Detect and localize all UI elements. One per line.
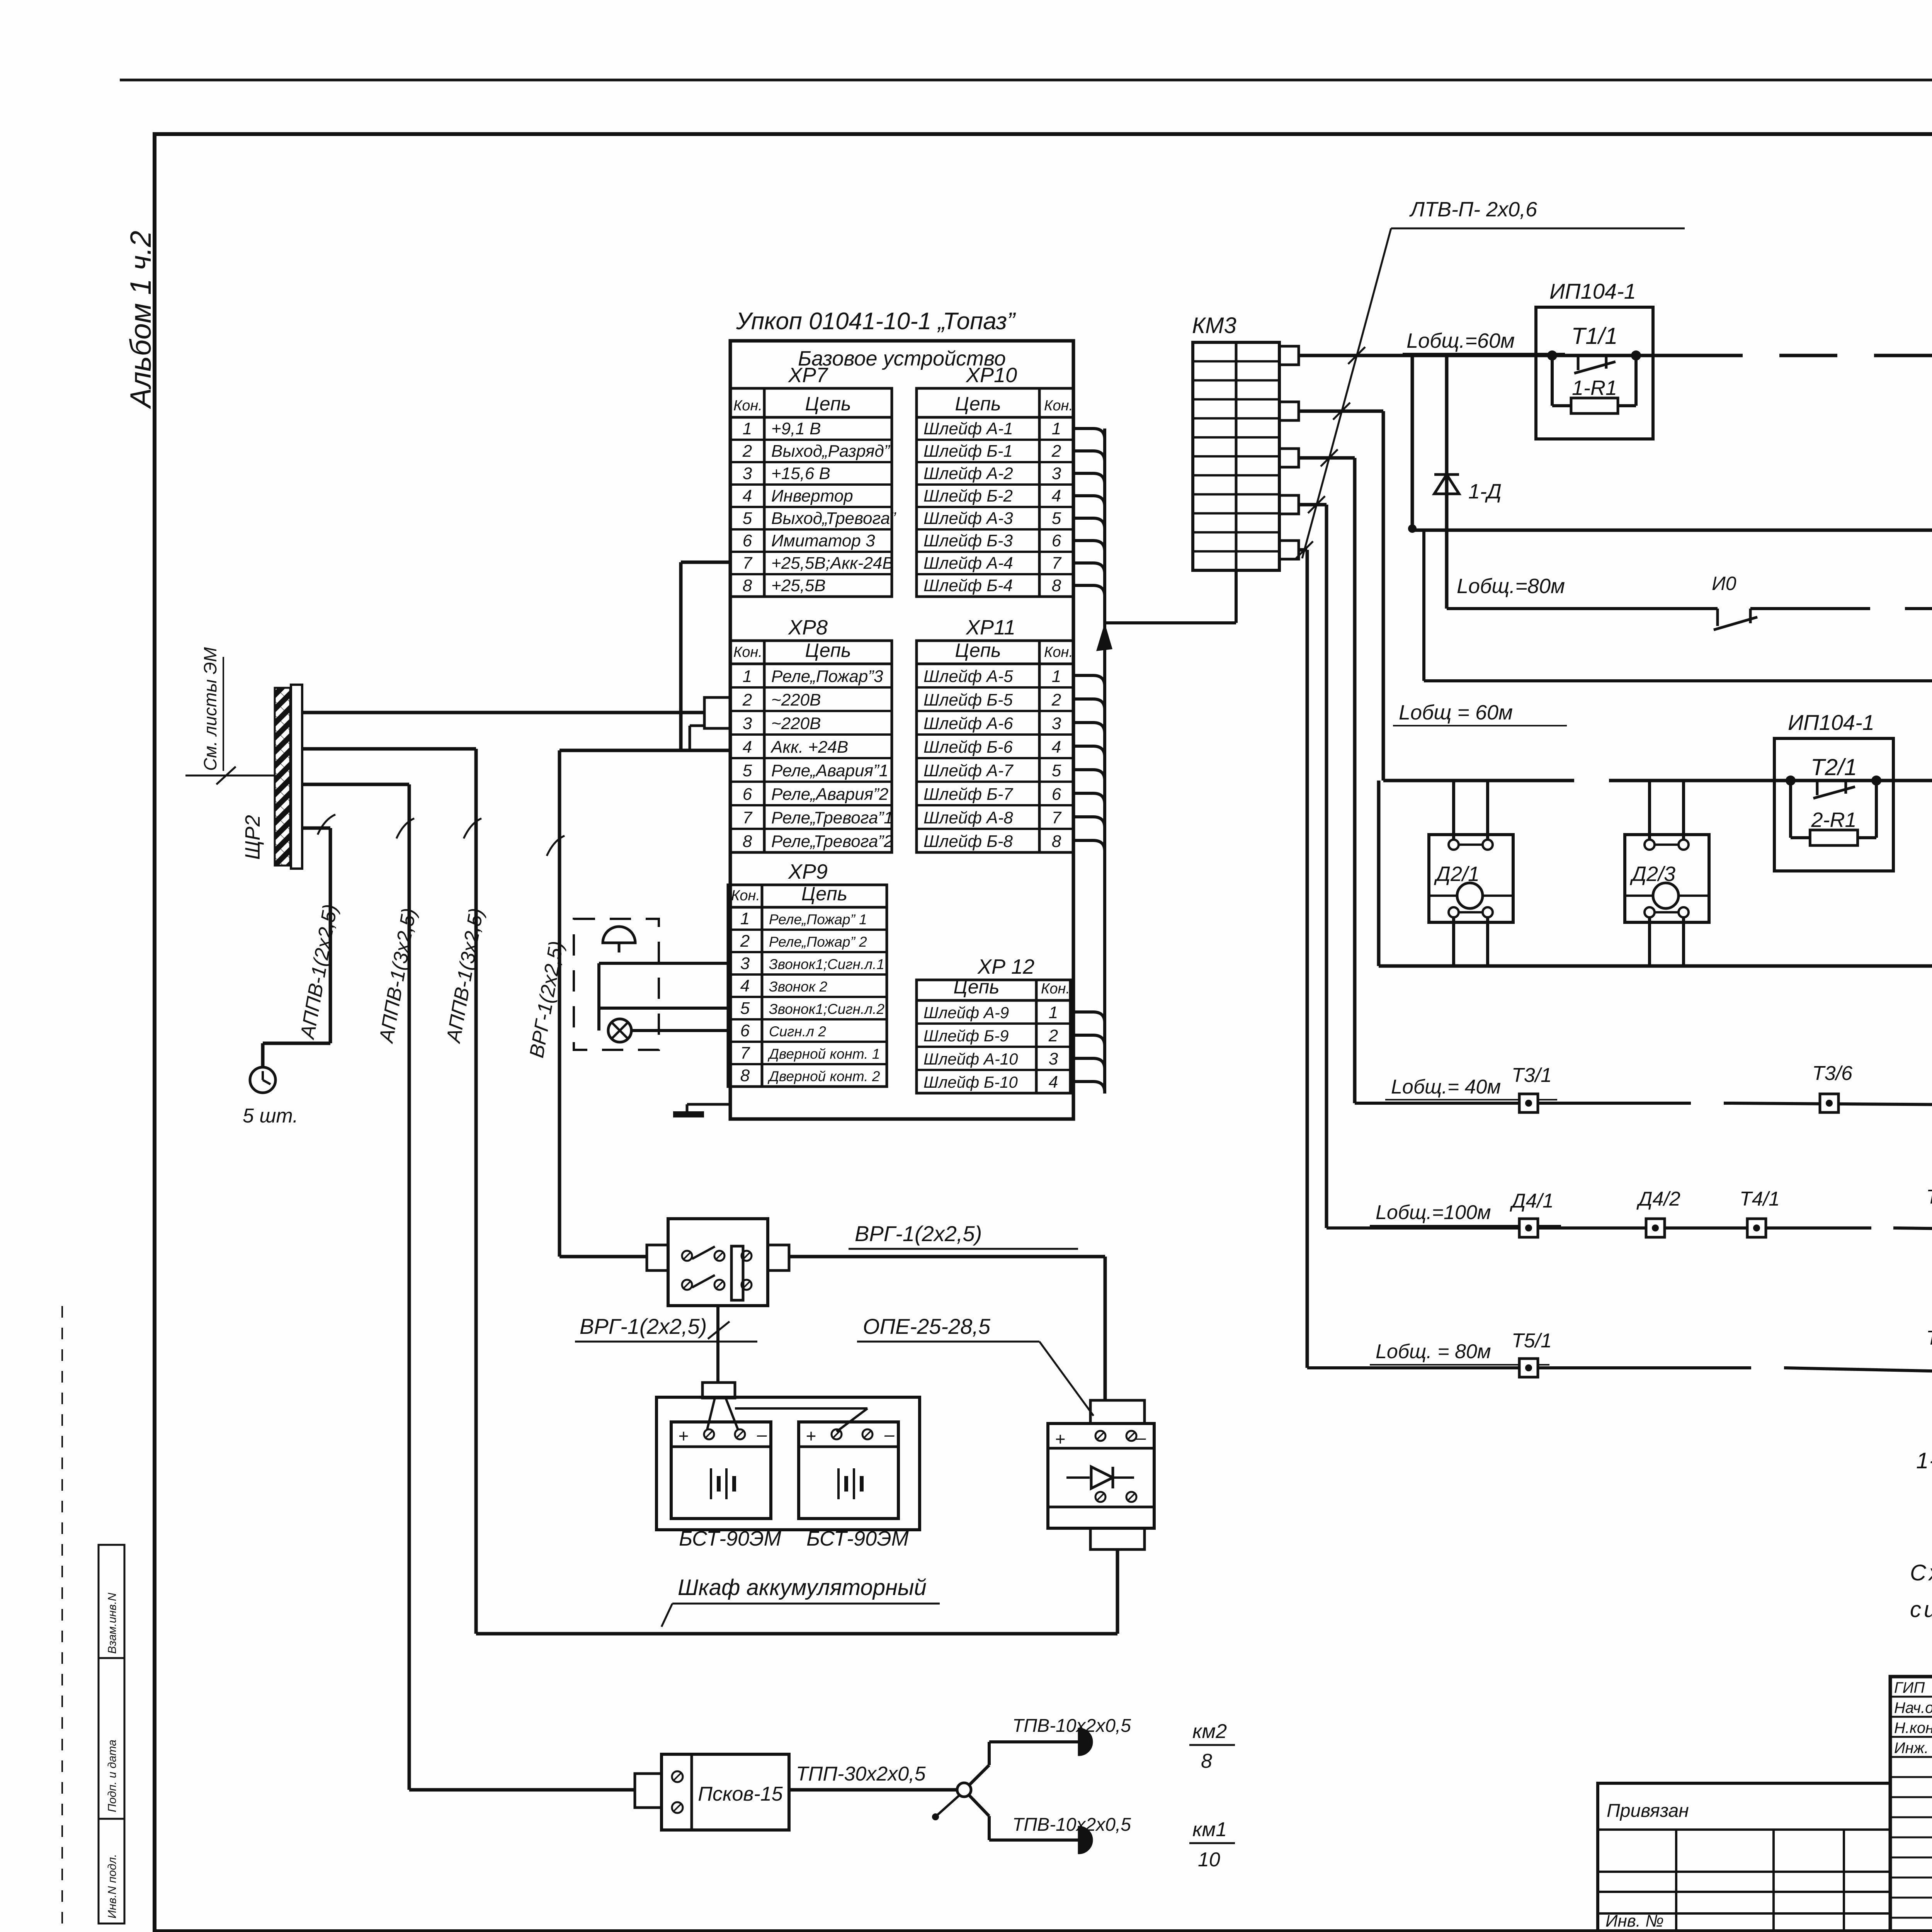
svg-text:2: 2 [1048,1026,1058,1045]
svg-text:8: 8 [743,576,752,595]
svg-text:Шлейф А-6: Шлейф А-6 [923,714,1013,733]
loop1 return wire [1412,529,1932,532]
svg-text:7: 7 [740,1044,750,1063]
svg-text:Реле„Пожар” 2: Реле„Пожар” 2 [769,934,867,950]
VRG-1 cable to switch [558,750,561,1257]
svg-text:1: 1 [743,667,752,686]
svg-text:Звонок1;Сигн.л.2: Звонок1;Сигн.л.2 [769,1001,884,1017]
wire stubs for Д2/1 [1452,781,1455,840]
radio set Pskov-15 [635,1774,662,1808]
cable APPV-1(3x2.5) #2 vertical (to rectifier) [474,749,478,1634]
svg-text:Выход„Разряд”: Выход„Разряд” [771,442,891,461]
svg-text:1- R1...1R13; 2-R1... 2-R3 -: 1- R1...1R13; 2-R1... 2-R3 - МЛТ- 0,25 -… [1916,1448,1932,1473]
svg-text:4: 4 [743,486,752,505]
svg-text:+25,5В;Акк-24В: +25,5В;Акк-24В [771,554,894,573]
svg-text:Т4/22: Т4/22 [1926,1186,1932,1208]
svg-text:–: – [757,1424,767,1444]
svg-text:Шлейф А-9: Шлейф А-9 [923,1003,1009,1022]
battery БСТ-90ЭМ [799,1422,898,1519]
KM3 output stubs [1279,346,1299,365]
svg-text:5: 5 [740,999,750,1018]
svg-text:ХР10: ХР10 [965,364,1017,387]
svg-text:+15,6 В: +15,6 В [771,464,830,483]
svg-text:ТПВ-10х2х0,5: ТПВ-10х2х0,5 [1012,1815,1131,1835]
svg-text:И0: И0 [1712,573,1736,594]
svg-text:Цепь: Цепь [805,393,851,415]
svg-text:10: 10 [1198,1849,1220,1871]
svg-text:Схема подключения извещателей: Схема подключения извещателей пожарной [1910,1560,1932,1585]
svg-text:Шлейф Б-7: Шлейф Б-7 [923,785,1014,804]
svg-text:БСТ-90ЭМ: БСТ-90ЭМ [806,1527,909,1550]
svg-text:+: + [806,1426,816,1446]
svg-text:7: 7 [1052,808,1062,827]
svg-text:6: 6 [743,785,752,804]
svg-text:7: 7 [743,554,753,573]
svg-text:Т3/6: Т3/6 [1812,1062,1852,1085]
svg-text:БСТ-90ЭМ: БСТ-90ЭМ [679,1527,781,1550]
svg-text:км2: км2 [1192,1720,1227,1743]
svg-text:Д4/2: Д4/2 [1636,1188,1680,1210]
svg-text:ЛТВ-П- 2х0,6: ЛТВ-П- 2х0,6 [1409,198,1537,221]
svg-text:Шлейф А-1: Шлейф А-1 [923,419,1013,438]
rectifier OPE-25-28.5 [1090,1400,1145,1423]
svg-text:~220В: ~220В [771,714,821,733]
svg-text:1: 1 [1049,1003,1058,1022]
svg-text:Н.контр: Н.контр [1894,1719,1932,1736]
svg-text:2: 2 [1051,442,1061,461]
I0 chain wire [1447,607,1718,610]
svg-text:Альбом 1 ч.2: Альбом 1 ч.2 [124,231,157,409]
ground symbol at base unit [687,1103,730,1106]
svg-text:3: 3 [740,954,750,973]
svg-text:7: 7 [1052,554,1062,573]
svg-text:Шлейф А-3: Шлейф А-3 [923,509,1013,528]
cable callout LTV-P-2x0.6 [1302,228,1391,558]
detector box Д2/1 [1429,835,1513,922]
svg-text:Шлейф Б-6: Шлейф Б-6 [923,738,1013,757]
svg-text:1: 1 [743,419,752,438]
svg-text:8: 8 [740,1066,750,1085]
bell symbol [603,927,635,943]
svg-text:4: 4 [1052,738,1061,757]
svg-text:Звонок 2: Звонок 2 [769,979,827,995]
svg-text:Цепь: Цепь [805,639,851,661]
svg-text:ВРГ-1(2х2,5): ВРГ-1(2х2,5) [580,1314,707,1338]
wire ShR2 to clocks [302,827,330,830]
svg-text:3: 3 [1052,714,1061,733]
svg-text:ТПВ-10х2х0,5: ТПВ-10х2х0,5 [1012,1716,1131,1736]
svg-text:2: 2 [742,442,752,461]
svg-text:Реле„Пожар” 1: Реле„Пожар” 1 [769,912,867,927]
svg-text:Звонок1;Сигн.л.1: Звонок1;Сигн.л.1 [769,956,884,972]
svg-text:6: 6 [740,1021,750,1040]
svg-text:Шлейф Б-9: Шлейф Б-9 [923,1027,1009,1045]
svg-text:1: 1 [1052,419,1061,438]
wire ShR2 +24V branch [302,747,476,751]
svg-text:Шлейф А-5: Шлейф А-5 [923,667,1013,686]
svg-text:3: 3 [743,464,752,483]
loop5 feed [1299,548,1307,552]
svg-text:Цепь: Цепь [955,639,1001,661]
battery cabinet [656,1397,920,1530]
junction node loop1 [1411,355,1414,529]
svg-text:Шлейф А-8: Шлейф А-8 [923,808,1013,827]
svg-text:2-R1: 2-R1 [1811,808,1856,832]
wire loop1 feed (Lobsh=60m) [1299,354,1685,357]
svg-text:ХР9: ХР9 [787,860,828,883]
svg-text:Шлейф Б-8: Шлейф Б-8 [923,832,1013,851]
svg-text:+: + [1055,1429,1065,1449]
svg-text:Шлейф А-7: Шлейф А-7 [923,761,1014,780]
svg-text:4: 4 [1049,1073,1058,1092]
svg-text:Привязан: Привязан [1607,1801,1689,1821]
svg-text:Т1/1: Т1/1 [1571,323,1617,349]
svg-text:2: 2 [742,690,752,709]
svg-text:Реле„Авария”2: Реле„Авария”2 [771,785,888,804]
svg-text:+25,5В: +25,5В [771,576,826,595]
svg-text:Шлейф Б-5: Шлейф Б-5 [923,690,1013,709]
loop2 return left vertical [1377,781,1381,966]
svg-text:5: 5 [1052,509,1061,528]
svg-text:Цепь: Цепь [955,393,1001,415]
svg-text:Сигн.л 2: Сигн.л 2 [769,1024,826,1039]
sheet left outer edge (partial) [61,1306,63,1932]
left stamp strip boxes [99,1545,124,1923]
svg-text:Акк. +24В: Акк. +24В [770,738,848,757]
svg-text:7: 7 [743,808,753,827]
svg-text:ХР7: ХР7 [787,364,828,387]
svg-text:ТПП-30х2х0,5: ТПП-30х2х0,5 [796,1763,926,1785]
sheet top edge line [120,79,1932,82]
svg-text:Lобщ.=60м: Lобщ.=60м [1406,329,1515,352]
svg-text:ВРГ-1(2х2,5): ВРГ-1(2х2,5) [855,1221,982,1246]
diode 1-D [1445,355,1449,609]
svg-text:3: 3 [743,714,752,733]
svg-text:Реле„Тревога”2: Реле„Тревога”2 [771,832,893,851]
title block left attachment [1598,1783,1890,1931]
svg-text:Цепь: Цепь [953,976,999,998]
wire ShR2 to XP8 220V connector [302,711,704,714]
bus vertical line [1103,429,1106,1094]
svg-text:Выход„Тревога”: Выход„Тревога” [771,509,896,528]
svg-text:~220В: ~220В [771,690,821,709]
svg-text:6: 6 [1052,785,1061,804]
svg-text:Шкаф аккумуляторный: Шкаф аккумуляторный [678,1575,927,1600]
svg-text:Упкоп 01041-10-1 „Топаз”: Упкоп 01041-10-1 „Топаз” [736,308,1016,335]
svg-text:Т5/16: Т5/16 [1926,1327,1932,1349]
svg-text:Кон.: Кон. [1044,398,1073,414]
svg-text:Lобщ.= 40м: Lобщ.= 40м [1391,1076,1501,1098]
loop5 wire [1307,1366,1705,1369]
svg-text:4: 4 [740,976,750,995]
svg-text:–: – [884,1424,895,1444]
svg-text:Lобщ.=80м: Lобщ.=80м [1457,575,1565,598]
svg-text:Нач.отд: Нач.отд [1894,1699,1932,1716]
bus arrow [1096,623,1112,651]
wire bus from XP10 rows to KM3 [1070,429,1105,1092]
svg-text:КМ3: КМ3 [1192,313,1236,338]
svg-text:4: 4 [1052,486,1061,505]
svg-text:+9,1 В: +9,1 В [771,419,821,438]
svg-text:ГИП: ГИП [1894,1679,1925,1696]
svg-text:2: 2 [1051,690,1061,709]
svg-text:ЩР2: ЩР2 [241,815,264,860]
wire switch to battery [716,1306,719,1383]
svg-text:3: 3 [1052,464,1061,483]
loop2 bottom wire [1379,964,1932,968]
wire stubs for Д2/3 [1648,781,1651,840]
bus to KM3 horizontal wire [1105,621,1236,624]
svg-text:ОПЕ-25-28,5: ОПЕ-25-28,5 [863,1314,991,1338]
svg-text:Lобщ.=100м: Lобщ.=100м [1376,1201,1491,1224]
svg-text:ХР 12: ХР 12 [977,955,1034,978]
svg-text:–: – [1136,1427,1146,1447]
wire switch to rectifier [789,1255,1105,1259]
svg-text:1: 1 [1052,667,1061,686]
svg-text:Д4/1: Д4/1 [1510,1190,1554,1212]
svg-text:Взам.инв.N: Взам.инв.N [106,1593,119,1654]
svg-text:5: 5 [743,509,752,528]
clock symbol (5 pcs) [250,1067,276,1093]
connector plug at XP8 rows 2-3 [704,697,730,728]
svg-text:Кон.: Кон. [733,398,762,414]
svg-text:Шлейф Б-3: Шлейф Б-3 [923,531,1013,550]
svg-text:5 шт.: 5 шт. [243,1105,298,1127]
svg-text:км1: км1 [1192,1818,1227,1841]
svg-text:Цепь: Цепь [801,883,847,905]
svg-text:Инвертор: Инвертор [771,486,853,505]
svg-text:Шлейф А-4: Шлейф А-4 [923,554,1013,573]
svg-text:Шлейф Б-1: Шлейф Б-1 [923,442,1013,461]
battery connection wires [707,1398,715,1430]
svg-text:Шлейф А-10: Шлейф А-10 [923,1050,1018,1068]
svg-text:Реле„Тревога”1: Реле„Тревога”1 [771,808,893,827]
I0 return wire [1424,679,1932,682]
loop3 wire [1355,1102,1645,1105]
svg-text:Инв. №: Инв. № [1605,1912,1664,1930]
phone branch km2 [969,1765,989,1785]
svg-text:Т4/1: Т4/1 [1740,1188,1780,1210]
svg-text:+: + [678,1426,689,1446]
svg-text:Кон.: Кон. [1044,644,1073,660]
phone branch km1 [969,1795,989,1816]
svg-text:Имитатор 3: Имитатор 3 [771,531,875,550]
loop2 top wire [1383,779,1520,782]
svg-text:5: 5 [743,761,752,780]
svg-text:2: 2 [740,932,750,951]
wire ShR2 to Pskov-15 [302,783,409,786]
svg-text:4: 4 [743,738,752,757]
svg-text:8: 8 [1052,576,1061,595]
rectifier diode symbol [1066,1476,1090,1479]
svg-text:6: 6 [743,531,752,550]
svg-text:Т2/1: Т2/1 [1811,754,1857,780]
svg-text:Дверной конт. 1: Дверной конт. 1 [767,1046,880,1062]
svg-text:8: 8 [743,832,752,851]
svg-text:ХР8: ХР8 [787,616,828,639]
svg-text:См. листы ЭМ: См. листы ЭМ [200,647,220,771]
switch box (battery switch) [647,1245,668,1270]
svg-text:1-Д: 1-Д [1468,480,1502,503]
bell wires to XP9 [599,962,728,965]
wire to XP7/XP8 24V [560,749,730,752]
svg-text:Шлейф Б-4: Шлейф Б-4 [923,576,1013,595]
loop4 feed [1299,503,1327,507]
svg-text:Реле„Авария”1: Реле„Авария”1 [771,761,888,780]
rectifier bottom connector [1090,1528,1145,1549]
svg-text:Lобщ = 60м: Lобщ = 60м [1399,701,1513,724]
bell and lamp unit (dashed box) [574,919,659,1050]
loop2 feed vertical [1299,410,1383,413]
svg-text:Кон.: Кон. [733,644,762,660]
svg-text:Инв.N подл.: Инв.N подл. [106,1854,119,1918]
svg-text:ИП104-1: ИП104-1 [1549,279,1636,303]
detector box Д2/3 [1625,835,1709,922]
svg-text:Псков-15: Псков-15 [698,1783,783,1805]
svg-text:8: 8 [1201,1750,1212,1772]
svg-text:Шлейф А-2: Шлейф А-2 [923,464,1013,483]
svg-text:Реле„Пожар”3: Реле„Пожар”3 [771,667,883,686]
svg-text:Т3/1: Т3/1 [1512,1064,1552,1087]
wire to phone junction [789,1788,957,1792]
svg-text:Подп. и дата: Подп. и дата [106,1740,119,1812]
base unit outer box [730,341,1073,1119]
svg-text:Дверной конт. 2: Дверной конт. 2 [767,1068,880,1084]
svg-text:1-R1: 1-R1 [1572,376,1617,400]
battery БСТ-90ЭМ [671,1422,771,1519]
svg-text:1: 1 [740,909,750,928]
svg-text:Инж.: Инж. [1894,1740,1929,1757]
svg-text:ХР11: ХР11 [965,616,1015,639]
svg-text:Шлейф Б-2: Шлейф Б-2 [923,486,1013,505]
svg-text:3: 3 [1049,1049,1058,1068]
svg-text:Шлейф Б-10: Шлейф Б-10 [923,1073,1018,1091]
svg-text:Кон.: Кон. [1041,981,1070,997]
svg-text:5: 5 [1052,761,1061,780]
loop3 feed [1299,456,1355,460]
title block [1890,1677,1932,1931]
loop4 wire [1327,1226,1825,1230]
svg-text:Т5/1: Т5/1 [1512,1330,1552,1352]
svg-text:сигнализации в лучи N 3,4,5 а: сигнализации в лучи N 3,4,5 аналогична. [1910,1597,1932,1622]
svg-text:Кон.: Кон. [731,888,760,904]
svg-text:Lобщ. = 80м: Lобщ. = 80м [1376,1340,1491,1363]
lamp symbol [608,1019,631,1042]
svg-text:ИП104-1: ИП104-1 [1788,710,1874,735]
svg-text:6: 6 [1052,531,1061,550]
svg-text:8: 8 [1052,832,1061,851]
